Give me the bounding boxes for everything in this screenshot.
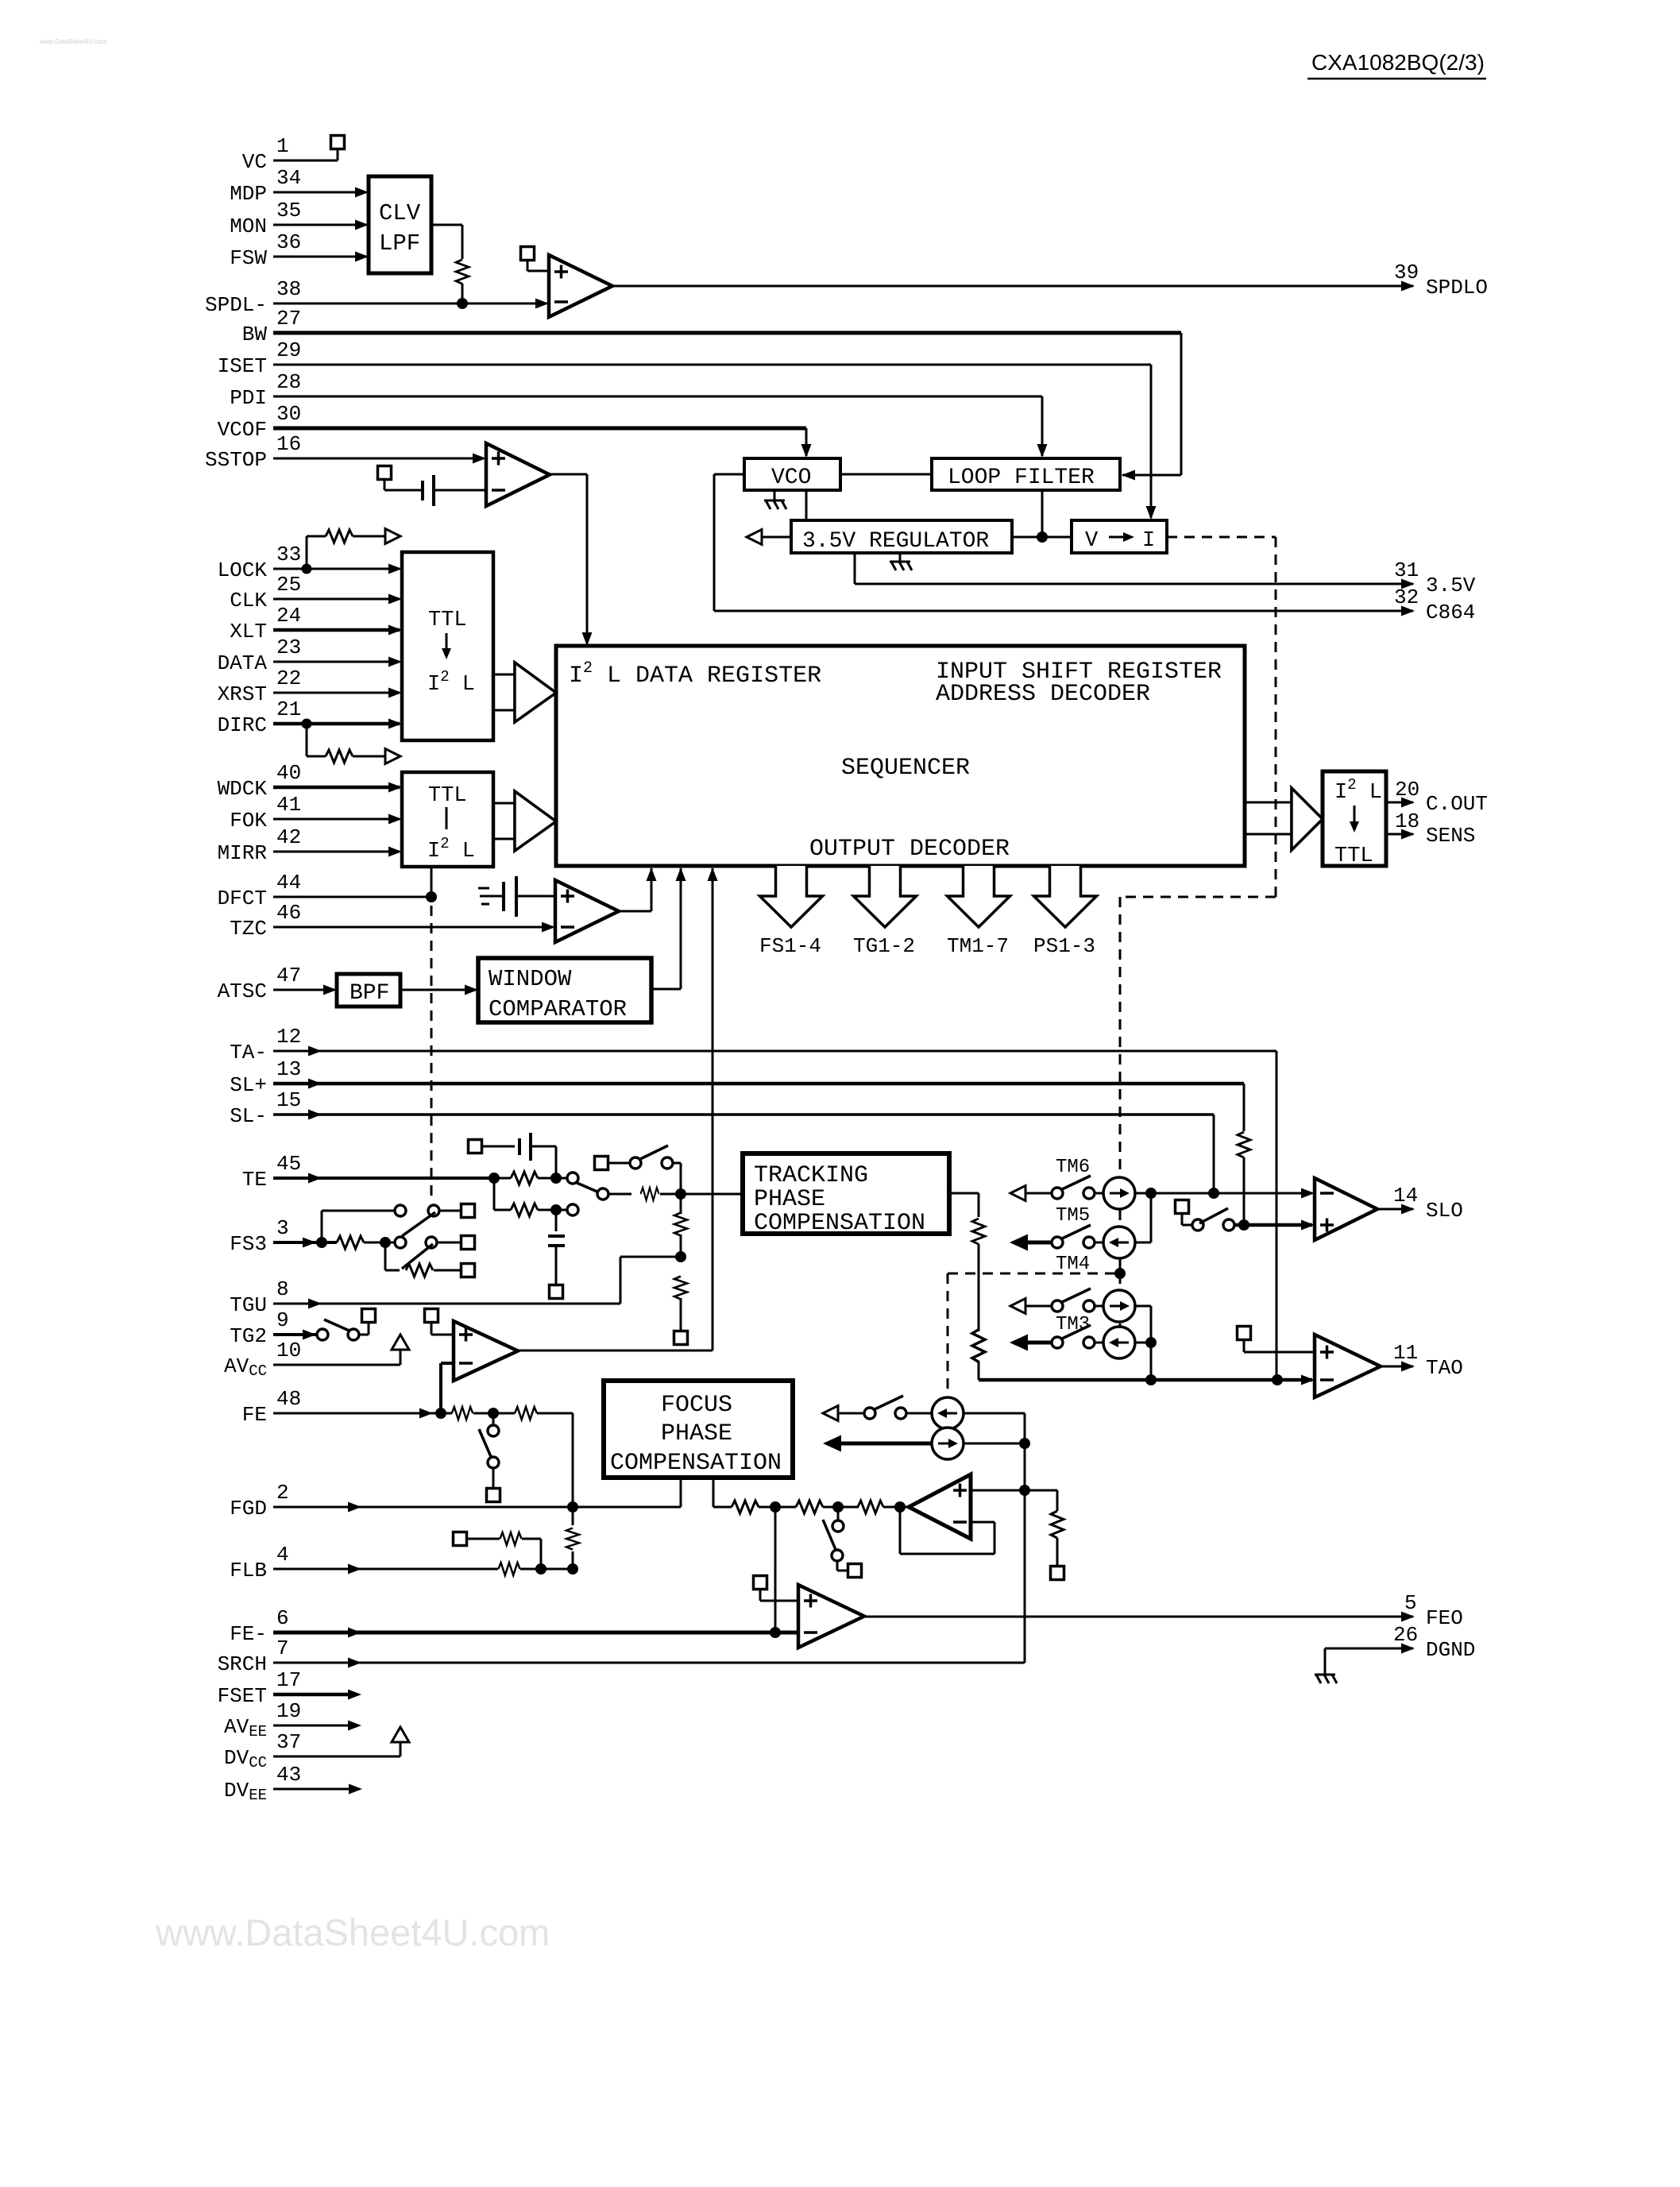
wire FE- xyxy=(273,1631,798,1635)
wire 3.5V output pin 31 xyxy=(854,553,856,584)
switch contact TM row4 b xyxy=(1083,1337,1095,1348)
op-amp U1 SPDL driver xyxy=(549,255,612,317)
svg-text:21: 21 xyxy=(276,697,301,721)
bus arrow apexes over box edge xyxy=(515,663,556,722)
terminal and resistor row above FLB xyxy=(454,1532,500,1546)
svg-text:CLV: CLV xyxy=(379,200,421,226)
wire FSET xyxy=(273,1693,356,1697)
wire MIRR xyxy=(273,851,400,853)
switch contact upper row xyxy=(395,1205,406,1216)
current source TM5 xyxy=(1103,1227,1135,1258)
hollow bus arrow TTL2 to sequencer xyxy=(493,791,556,851)
capacitor C1 on U2 - input xyxy=(378,466,487,507)
resistor and open arrow from DIRC xyxy=(306,724,308,756)
node sum b xyxy=(832,1501,844,1513)
svg-text:CXA1082BQ(2/3): CXA1082BQ(2/3) xyxy=(1311,50,1485,75)
svg-text:TG2: TG2 xyxy=(230,1324,267,1348)
wire resistor to SPDL- node xyxy=(462,284,464,303)
ground VCO xyxy=(774,490,776,500)
wire BW routing to loop filter xyxy=(273,331,1181,335)
wire U5 feedback loop xyxy=(971,1521,994,1524)
wire DFCT xyxy=(273,896,431,898)
output arrow TG1-2 xyxy=(853,866,917,958)
block 3.5V REGULATOR xyxy=(791,520,1012,554)
wire FLB xyxy=(273,1568,498,1571)
resistor R FS3 lower xyxy=(406,1264,433,1277)
node FGD junction xyxy=(567,1501,578,1513)
resistor R divider upper xyxy=(674,1213,687,1236)
svg-text:ISET: ISET xyxy=(218,354,267,378)
current source TM6 xyxy=(1103,1177,1135,1209)
bus arrow apex over I2L/TTL box edge xyxy=(1292,788,1323,850)
svg-text:SENS: SENS xyxy=(1426,824,1475,848)
svg-text:FSET: FSET xyxy=(218,1684,267,1708)
switch contact bypass a xyxy=(630,1157,641,1169)
resistor R aux xyxy=(500,1532,521,1545)
svg-text:4: 4 xyxy=(276,1543,289,1567)
wire DATA xyxy=(273,661,400,663)
pin 12 TA- xyxy=(230,1025,301,1065)
svg-text:I2 L: I2 L xyxy=(1334,776,1382,805)
wire CS2 to riser xyxy=(964,1443,1025,1445)
svg-text:45: 45 xyxy=(276,1152,301,1176)
svg-text:FSW: FSW xyxy=(230,246,267,270)
wire VCO to regulator xyxy=(805,490,808,520)
switch lever cs row1 xyxy=(873,1396,903,1410)
pin 29 ISET xyxy=(218,338,302,378)
row 2 of TE network xyxy=(493,1178,496,1210)
svg-text:48: 48 xyxy=(276,1387,301,1411)
op-amp U4 FE amp xyxy=(454,1321,518,1381)
svg-text:C864: C864 xyxy=(1426,601,1475,624)
wire SPDLO output pin 39 xyxy=(612,285,1413,288)
node TM6 junction xyxy=(1145,1188,1157,1199)
hollow bus arrow TTL1 to sequencer xyxy=(493,663,556,722)
svg-text:LOCK: LOCK xyxy=(218,558,268,582)
svg-text:FOCUS: FOCUS xyxy=(661,1392,732,1419)
terminal at U4 - input xyxy=(425,1309,438,1323)
svg-text:41: 41 xyxy=(276,793,301,817)
pin 47 ATSC xyxy=(218,964,302,1003)
pin 25 CLK xyxy=(230,573,301,612)
svg-text:DATA: DATA xyxy=(218,651,268,675)
node FE- junction xyxy=(770,1627,781,1638)
wire TG2 to terminal xyxy=(359,1334,369,1336)
pin 27 BW xyxy=(242,307,301,346)
svg-text:44: 44 xyxy=(276,871,301,895)
resistor R sum 2 xyxy=(796,1501,823,1513)
terminal sum switch xyxy=(848,1564,862,1578)
node TE junction xyxy=(489,1173,500,1184)
terminal at U6 + input xyxy=(754,1576,767,1590)
svg-text:SEQUENCER: SEQUENCER xyxy=(841,755,970,782)
power symbol AVcc xyxy=(392,1335,409,1350)
terminal and switch at SLO + input xyxy=(1176,1200,1193,1226)
switch contact upper row b xyxy=(428,1205,439,1216)
wire BPF to window comparator xyxy=(400,989,476,991)
svg-text:FLB: FLB xyxy=(230,1559,267,1582)
pin 35 MON xyxy=(230,199,301,238)
svg-text:PDI: PDI xyxy=(230,386,267,410)
svg-text:COMPENSATION: COMPENSATION xyxy=(610,1450,782,1477)
wire TE xyxy=(273,1177,494,1180)
block sequencer / data register / decoders xyxy=(556,646,1245,866)
node on dashed control line xyxy=(1114,1268,1126,1279)
node SL+ junction xyxy=(1238,1219,1249,1231)
wire SPDL- xyxy=(273,303,546,305)
svg-text:DIRC: DIRC xyxy=(218,713,267,737)
switch contact TM5 b xyxy=(1083,1237,1095,1248)
svg-text:I: I xyxy=(1142,529,1155,553)
terminal at op-amp U1 + input xyxy=(521,247,535,261)
wire tracking comp output routing to TAO - line xyxy=(949,1192,979,1195)
wire focus comp output to summing chain xyxy=(713,1478,715,1507)
wire FEO output pin 5 xyxy=(864,1616,1413,1618)
svg-text:SPDLO: SPDLO xyxy=(1426,276,1488,299)
svg-text:23: 23 xyxy=(276,636,301,659)
wire SLO - input line xyxy=(1151,1192,1312,1195)
svg-text:TG1-2: TG1-2 xyxy=(853,934,915,958)
wire U4 output up to sequencer xyxy=(518,1350,713,1352)
wire window comparator to sequencer xyxy=(651,988,681,991)
switch pole TE xyxy=(597,1188,608,1200)
svg-text:TM6: TM6 xyxy=(1056,1157,1090,1178)
svg-text:31: 31 xyxy=(1394,558,1419,582)
switch contact TM6 b xyxy=(1083,1188,1095,1199)
wire SRCH riser xyxy=(1024,1413,1026,1663)
switch lever bypass xyxy=(639,1146,668,1160)
svg-text:www.DataSheet4U.com: www.DataSheet4U.com xyxy=(39,38,107,45)
resistor R divider lower xyxy=(674,1277,687,1300)
wire FOK xyxy=(273,818,400,821)
svg-text:C.OUT: C.OUT xyxy=(1426,792,1488,816)
wire AVee xyxy=(273,1725,356,1727)
wire CLV LPF output to node A xyxy=(431,224,462,226)
svg-text:15: 15 xyxy=(276,1088,301,1112)
svg-text:8: 8 xyxy=(276,1277,289,1301)
switch lever TM3 xyxy=(1060,1289,1091,1303)
node tracking input junction xyxy=(675,1188,686,1200)
upper bypass switch with terminal xyxy=(595,1157,631,1170)
svg-text:I2 L: I2 L xyxy=(427,668,475,697)
switch contact sum b xyxy=(832,1550,843,1561)
current source TM row4 xyxy=(1103,1327,1135,1358)
svg-text:32: 32 xyxy=(1394,585,1419,609)
node LOCK junction xyxy=(302,564,312,574)
resistor and open arrow from LOCK xyxy=(306,536,308,569)
wire TA- routing to TAO amp xyxy=(273,1050,1276,1053)
svg-text:MDP: MDP xyxy=(230,182,267,206)
switch contact TM row4 a xyxy=(1052,1337,1063,1348)
pin 7 SRCH xyxy=(218,1636,289,1676)
wire FE to U4 + input xyxy=(439,1363,442,1413)
wire DGND pin 26 xyxy=(1325,1648,1413,1650)
svg-text:FGD: FGD xyxy=(230,1497,267,1520)
pin 22 XRST xyxy=(218,667,302,706)
ground DGND xyxy=(1315,1675,1337,1683)
pin 33 LOCK xyxy=(218,543,302,582)
svg-text:TTL: TTL xyxy=(1334,844,1373,868)
resistor R track 1 xyxy=(972,1219,985,1244)
wire vertical sum a to FE- line xyxy=(774,1507,777,1633)
svg-text:34: 34 xyxy=(276,166,301,190)
pin 24 XLT xyxy=(230,604,301,643)
block TTL to I2L interface 2 xyxy=(402,772,493,867)
op-amp U5 buffer (left pointing) xyxy=(909,1474,971,1539)
pin 44 DFCT xyxy=(218,871,302,910)
pin 1 VC xyxy=(242,134,289,174)
node FLB a xyxy=(535,1563,546,1575)
wire CLK xyxy=(273,598,400,601)
svg-text:FE-: FE- xyxy=(230,1622,267,1646)
pin 46 TZC xyxy=(230,901,301,941)
svg-text:36: 36 xyxy=(276,230,301,254)
terminal VC xyxy=(331,136,345,149)
wire CS1 to riser xyxy=(964,1412,1025,1415)
switch contact FS3 row xyxy=(395,1237,406,1248)
wire ISET routing to V-I xyxy=(273,364,1151,366)
switch contact FE a xyxy=(488,1425,499,1436)
wire TZC xyxy=(273,926,553,929)
divider chain below tracking node xyxy=(680,1194,682,1214)
wire SL+ routing xyxy=(273,1082,1244,1086)
svg-text:1: 1 xyxy=(276,134,289,158)
switch contact cs row1 a xyxy=(864,1408,875,1419)
wire WDCK xyxy=(273,786,400,790)
pin 8 TGU xyxy=(230,1277,288,1317)
svg-text:FS3: FS3 xyxy=(230,1232,267,1256)
svg-text:PHASE: PHASE xyxy=(661,1420,732,1447)
resistor R track 2 xyxy=(972,1330,985,1362)
switch contact TM3 a xyxy=(1052,1300,1063,1312)
wire FSW xyxy=(273,256,367,258)
switch lever TM5 xyxy=(1060,1225,1091,1239)
block VCO xyxy=(744,458,840,490)
wire TM3 to row4 node xyxy=(1150,1306,1153,1343)
svg-text:27: 27 xyxy=(276,307,301,330)
wire FE xyxy=(273,1412,452,1415)
pin 48 FE xyxy=(242,1387,301,1427)
node FS3 a xyxy=(316,1237,327,1248)
svg-text:TTL: TTL xyxy=(428,609,467,632)
pin 19 AVee xyxy=(224,1699,301,1741)
svg-text:BW: BW xyxy=(242,323,268,346)
current source TM3 xyxy=(1103,1290,1135,1322)
switch contact row2 xyxy=(567,1204,578,1215)
node FE b xyxy=(488,1408,499,1419)
terminal FS3 lower xyxy=(462,1264,475,1277)
terminal FE switch xyxy=(487,1489,500,1502)
svg-text:10: 10 xyxy=(276,1339,301,1362)
svg-text:20: 20 xyxy=(1395,778,1419,802)
wire XLT xyxy=(273,628,400,632)
wire to ground xyxy=(1324,1648,1327,1675)
pin 43 DVee xyxy=(224,1763,301,1804)
hollow bus arrow sequencer to I2L/TTL xyxy=(1245,788,1323,850)
svg-text:XLT: XLT xyxy=(230,620,267,643)
output arrow PS1-3 xyxy=(1033,866,1097,958)
svg-text:42: 42 xyxy=(276,825,301,849)
output arrow FS1-4 xyxy=(759,866,823,958)
svg-text:7: 7 xyxy=(276,1636,289,1660)
pin 37 DVcc xyxy=(224,1730,301,1772)
pin 21 DIRC xyxy=(218,697,302,737)
op-amp U6 FEO driver xyxy=(798,1585,864,1648)
node FE a xyxy=(435,1408,446,1419)
svg-text:TM1-7: TM1-7 xyxy=(947,934,1009,958)
resistor R TE lower xyxy=(511,1204,538,1216)
svg-text:PHASE: PHASE xyxy=(754,1186,825,1213)
pin 9 TG2 xyxy=(230,1308,288,1348)
svg-text:FEO: FEO xyxy=(1426,1606,1463,1630)
output arrow TM1-7 xyxy=(947,866,1010,958)
node TE resistor junction xyxy=(550,1173,562,1184)
pin 28 PDI xyxy=(230,370,301,410)
pin 4 FLB xyxy=(230,1543,288,1582)
wire TAO output pin 11 xyxy=(1381,1366,1413,1368)
wire PDI routing to loop filter top xyxy=(273,396,1042,398)
svg-text:19: 19 xyxy=(276,1699,301,1723)
wire TE pole to tracking comp xyxy=(608,1193,631,1196)
block BPF xyxy=(337,974,400,1007)
svg-text:CLK: CLK xyxy=(230,589,267,612)
op-amp U2 SSTOP comparator xyxy=(486,443,550,506)
svg-text:SPDL-: SPDL- xyxy=(205,293,267,317)
resistor on CLV output xyxy=(456,260,469,284)
pin 30 VCOF xyxy=(218,402,302,442)
wire C864 output pin 32 xyxy=(714,473,744,476)
svg-text:SL+: SL+ xyxy=(230,1073,267,1097)
wire TAO - input line xyxy=(979,1378,1312,1382)
svg-text:46: 46 xyxy=(276,901,301,925)
switch lever FS3 lower xyxy=(402,1244,433,1269)
svg-text:MIRR: MIRR xyxy=(218,841,267,865)
svg-text:TZC: TZC xyxy=(230,917,267,941)
svg-text:3: 3 xyxy=(276,1216,289,1240)
switch contact TG2 a xyxy=(317,1329,328,1340)
svg-text:DGND: DGND xyxy=(1426,1638,1475,1662)
pin 34 MDP xyxy=(230,166,301,206)
switch lever TM6 xyxy=(1060,1176,1091,1190)
switch lever FS3 upper xyxy=(402,1212,435,1236)
switch lever sum xyxy=(823,1520,836,1551)
switch lever TM row4 xyxy=(1060,1325,1091,1339)
resistor R FE 2 xyxy=(515,1407,537,1420)
svg-text:43: 43 xyxy=(276,1763,301,1787)
wire FGD into focus comp block xyxy=(573,1506,681,1509)
pin 2 FGD xyxy=(230,1481,288,1520)
wire SLO output pin 14 xyxy=(1377,1208,1413,1211)
svg-text:TRACKING: TRACKING xyxy=(754,1162,868,1189)
resistor R FS3 xyxy=(337,1236,364,1249)
wire SSTOP xyxy=(273,458,484,460)
wire VCOF routing to VCO top xyxy=(273,427,806,431)
pin 23 DATA xyxy=(218,636,302,675)
node row2 junction xyxy=(550,1204,562,1215)
wire C.OUT pin 20 xyxy=(1386,802,1413,804)
svg-text:39: 39 xyxy=(1394,261,1419,284)
pin 45 TE xyxy=(242,1152,301,1192)
switch contact SLO a xyxy=(1192,1219,1203,1231)
svg-text:FOK: FOK xyxy=(230,809,267,833)
svg-text:38: 38 xyxy=(276,277,301,301)
svg-text:SL-: SL- xyxy=(230,1104,267,1128)
svg-text:SLO: SLO xyxy=(1426,1199,1463,1223)
svg-text:V: V xyxy=(1085,529,1099,553)
switch contact FS3 row b xyxy=(426,1237,437,1248)
svg-text:25: 25 xyxy=(276,573,301,597)
node DIRC junction xyxy=(302,719,312,729)
svg-text:XRST: XRST xyxy=(218,682,267,706)
node riser a xyxy=(1019,1438,1030,1449)
pin 42 MIRR xyxy=(218,825,302,865)
svg-text:47: 47 xyxy=(276,964,301,987)
svg-text:BPF: BPF xyxy=(350,981,389,1006)
open arrow out TM3 xyxy=(1010,1299,1025,1314)
switch contact TG2 b xyxy=(348,1329,359,1340)
FS3 upper row xyxy=(321,1211,323,1242)
pin 6 FE- xyxy=(230,1606,288,1646)
svg-text:TE: TE xyxy=(242,1168,267,1192)
svg-text:12: 12 xyxy=(276,1025,301,1049)
node SL- junction xyxy=(1208,1188,1219,1199)
svg-text:I2 L: I2 L xyxy=(427,835,475,864)
wire VC xyxy=(273,160,338,162)
open arrow out TM6 xyxy=(1010,1186,1025,1201)
svg-text:WINDOW: WINDOW xyxy=(489,966,572,992)
svg-text:TA-: TA- xyxy=(230,1041,267,1065)
wire VCO to loop filter xyxy=(840,473,932,476)
switch below FE node xyxy=(492,1413,495,1426)
wire to terminal xyxy=(836,1561,839,1571)
pin 3 FS3 xyxy=(230,1216,288,1256)
svg-text:28: 28 xyxy=(276,370,301,394)
switch contact bypass b xyxy=(662,1157,673,1169)
node TAO - a xyxy=(1145,1374,1157,1385)
block CLV LPF xyxy=(369,176,431,273)
switch contact TE row xyxy=(567,1173,578,1184)
switch contact FE b xyxy=(488,1457,499,1468)
block TRACKING PHASE COMPENSATION xyxy=(743,1153,949,1237)
svg-text:TTL: TTL xyxy=(428,784,467,808)
svg-text:LPF: LPF xyxy=(379,230,420,257)
pin 38 SPDL- xyxy=(205,277,301,317)
node row4 junction xyxy=(1145,1337,1157,1348)
wire TG2 xyxy=(273,1333,317,1336)
svg-text:40: 40 xyxy=(276,761,301,785)
wire loop filter bottom to V-I input node xyxy=(1041,490,1044,537)
terminal upper row xyxy=(462,1204,475,1218)
wire DVcc xyxy=(273,1756,400,1758)
wire MON xyxy=(273,224,367,226)
wire SRCH xyxy=(273,1662,1025,1664)
svg-text:16: 16 xyxy=(276,432,301,456)
svg-text:ATSC: ATSC xyxy=(218,980,267,1003)
svg-text:11: 11 xyxy=(1393,1341,1418,1365)
svg-text:2: 2 xyxy=(276,1481,289,1505)
wire MDP xyxy=(273,191,367,194)
svg-text:I2 L DATA REGISTER: I2 L DATA REGISTER xyxy=(569,659,821,690)
block I2L to TTL output interface xyxy=(1323,771,1386,868)
svg-text:TGU: TGU xyxy=(230,1293,267,1317)
svg-text:29: 29 xyxy=(276,338,301,362)
ground regulator xyxy=(899,553,902,562)
wire ATSC xyxy=(273,989,334,991)
node FS3 b xyxy=(380,1237,391,1248)
svg-text:SRCH: SRCH xyxy=(218,1652,267,1676)
open arrow regulator left xyxy=(747,530,762,545)
block V to I converter xyxy=(1072,520,1167,553)
